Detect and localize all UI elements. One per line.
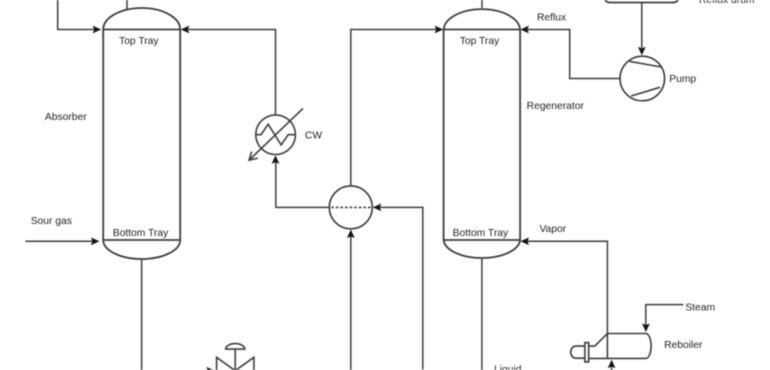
arrowhead into reboiler top [642,324,650,333]
svg-text:Absorber: Absorber [45,112,87,123]
control valve V-100 [217,344,254,370]
wire: sour gas feed [25,240,93,242]
svg-text:Reflux drum: Reflux drum [699,0,755,6]
wire: exchanger top to regenerator top left [351,30,436,186]
svg-text:CW: CW [305,131,322,142]
svg-text:Bottom Tray: Bottom Tray [453,228,509,239]
wire: regenerator bottoms liquid [481,259,483,370]
arrowhead into absorber top right [181,26,190,34]
wire: absorber bottom to valve [142,259,208,370]
absorber bottom tray line [103,239,180,241]
wire: pump discharge to regenerator reflux [527,30,620,79]
svg-text:Pump: Pump [669,74,696,85]
pump P-100 [620,56,665,101]
svg-text:Top Tray: Top Tray [119,36,159,47]
wire: reboiler vapor return to regenerator [527,241,607,333]
svg-text:Reboiler: Reboiler [664,340,703,351]
regenerator top tray line [444,29,520,31]
wire: reflux drum to pump [641,3,643,49]
svg-text:Top Tray: Top Tray [460,36,500,47]
reflux drum D-100 [605,0,679,3]
svg-text:Bottom Tray: Bottom Tray [113,228,169,239]
svg-text:Reflux: Reflux [537,12,567,23]
wire: exchanger left to cooler bottom [276,162,330,207]
arrowhead into cooler bottom [272,155,280,164]
wire: valve outlet to exchanger bottom [254,236,351,370]
cooler heat-removal diagonal arrow [249,108,303,160]
svg-text:Steam: Steam [685,302,715,313]
lean/rich heat exchanger (circle with dashed line) [329,186,372,229]
wire: absorber overhead (sweet gas) [126,0,128,10]
wire: lean amine riser to exchanger right [379,207,423,369]
reboiler E-101 (kettle) [571,334,651,362]
absorber top tray line [103,29,180,31]
svg-text:Regenerator: Regenerator [527,101,585,112]
wire: lean amine feed down into absorber top left [58,0,94,30]
arrowhead into regenerator bottom right [521,237,530,245]
absorber column T-100 [103,8,180,259]
wire: steam line into reboiler [646,305,684,325]
wire: reboiler bottoms feed from below [611,365,613,370]
svg-text:Vapor: Vapor [539,224,566,235]
arrowhead into absorber bottom left [91,237,100,245]
wire: regenerator overhead to reflux drum [481,0,483,8]
arrowhead into regenerator top right [520,26,529,34]
svg-text:Liquid: Liquid [494,364,522,370]
svg-text:Sour gas: Sour gas [31,216,72,227]
regenerator bottom tray line [444,239,520,241]
arrowhead into exchanger right [373,204,382,212]
cooler E-100 (circle with zigzag) [256,115,296,155]
arrowhead into exchanger bottom [347,230,355,239]
arrowhead into pump top [638,47,646,56]
arrowhead into valve [206,367,215,370]
regenerator column T-101 [444,9,520,258]
arrowhead into absorber top left [93,26,102,34]
arrowhead into regenerator top left [435,26,444,34]
arrowhead into reboiler bottom [608,360,616,369]
wire: cooler top to absorber top right [188,30,276,116]
